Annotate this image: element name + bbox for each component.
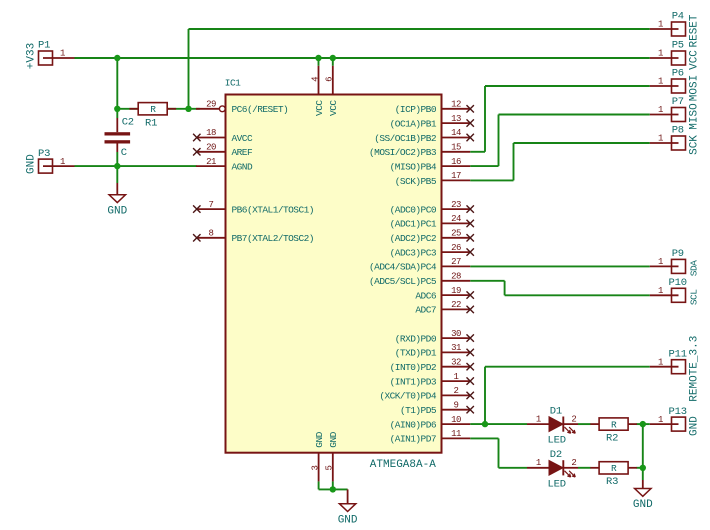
svg-text:18: 18 xyxy=(206,128,216,138)
svg-text:(ADC0)PC0: (ADC0)PC0 xyxy=(390,204,437,215)
svg-text:GND: GND xyxy=(328,431,339,447)
svg-text:R1: R1 xyxy=(145,118,157,130)
svg-text:(SS/OC1B)PB2: (SS/OC1B)PB2 xyxy=(374,133,437,144)
svg-text:12: 12 xyxy=(451,100,461,110)
svg-text:4: 4 xyxy=(310,77,320,82)
svg-text:16: 16 xyxy=(451,157,461,167)
svg-text:14: 14 xyxy=(451,128,461,138)
svg-text:GND: GND xyxy=(338,514,358,526)
svg-text:MOSI: MOSI xyxy=(688,75,700,101)
svg-text:22: 22 xyxy=(451,300,461,310)
svg-text:D1: D1 xyxy=(550,405,562,417)
svg-text:(SCK)PB5: (SCK)PB5 xyxy=(395,176,437,187)
svg-text:1: 1 xyxy=(658,257,663,267)
svg-text:ADC6: ADC6 xyxy=(415,290,436,301)
svg-text:R2: R2 xyxy=(606,433,618,445)
svg-text:SCK: SCK xyxy=(688,135,700,155)
svg-text:1: 1 xyxy=(658,134,663,144)
svg-text:P5: P5 xyxy=(672,40,684,52)
svg-text:C: C xyxy=(121,147,127,159)
svg-text:(MOSI/OC2)PB3: (MOSI/OC2)PB3 xyxy=(369,147,437,158)
svg-text:1: 1 xyxy=(658,77,663,87)
svg-text:(ADC5/SCL)PC5: (ADC5/SCL)PC5 xyxy=(369,276,437,287)
svg-text:D2: D2 xyxy=(550,449,562,461)
svg-text:11: 11 xyxy=(451,429,461,439)
svg-text:P3: P3 xyxy=(38,148,50,160)
svg-text:VCC: VCC xyxy=(688,50,700,70)
svg-text:R: R xyxy=(611,463,617,474)
svg-text:24: 24 xyxy=(451,214,461,224)
svg-text:21: 21 xyxy=(206,157,216,167)
svg-text:(ADC3)PC3: (ADC3)PC3 xyxy=(390,247,437,258)
svg-text:2: 2 xyxy=(571,415,576,425)
svg-text:REMOTE_3.3: REMOTE_3.3 xyxy=(688,336,700,402)
svg-text:2: 2 xyxy=(571,458,576,468)
svg-text:IC1: IC1 xyxy=(225,78,241,89)
svg-text:8: 8 xyxy=(209,229,214,239)
svg-text:19: 19 xyxy=(451,286,461,296)
svg-text:(ADC4/SDA)PC4: (ADC4/SDA)PC4 xyxy=(369,262,437,273)
svg-text:1: 1 xyxy=(658,49,663,59)
svg-text:1: 1 xyxy=(536,415,541,425)
svg-text:1: 1 xyxy=(658,105,663,115)
svg-text:31: 31 xyxy=(451,343,461,353)
svg-text:1: 1 xyxy=(536,458,541,468)
svg-text:GND: GND xyxy=(688,416,700,436)
svg-text:LED: LED xyxy=(548,435,566,447)
svg-text:(ICP)PB0: (ICP)PB0 xyxy=(395,104,437,115)
svg-text:ATMEGA8A-A: ATMEGA8A-A xyxy=(370,459,436,471)
svg-text:(INT0)PD2: (INT0)PD2 xyxy=(390,362,437,373)
svg-text:1: 1 xyxy=(60,49,65,59)
svg-text:PB7(XTAL2/TOSC2): PB7(XTAL2/TOSC2) xyxy=(232,233,314,244)
svg-text:P13: P13 xyxy=(669,406,687,418)
svg-text:P4: P4 xyxy=(672,11,684,23)
svg-text:AREF: AREF xyxy=(232,147,253,158)
svg-text:SDA: SDA xyxy=(688,260,699,276)
svg-text:28: 28 xyxy=(451,272,461,282)
svg-text:20: 20 xyxy=(206,143,216,153)
svg-text:SCL: SCL xyxy=(688,289,699,305)
svg-text:R: R xyxy=(150,104,156,115)
svg-text:17: 17 xyxy=(451,171,461,181)
svg-text:(XCK/T0)PD4: (XCK/T0)PD4 xyxy=(379,391,437,402)
svg-text:PB6(XTAL1/TOSC1): PB6(XTAL1/TOSC1) xyxy=(232,204,314,215)
svg-text:2: 2 xyxy=(454,386,459,396)
svg-text:GND: GND xyxy=(107,205,127,217)
svg-text:(INT1)PD3: (INT1)PD3 xyxy=(390,376,437,387)
svg-text:5: 5 xyxy=(325,465,335,470)
svg-text:(OC1A)PB1: (OC1A)PB1 xyxy=(390,118,437,129)
svg-text:1: 1 xyxy=(658,415,663,425)
svg-text:1: 1 xyxy=(658,286,663,296)
svg-text:P6: P6 xyxy=(672,68,684,80)
svg-text:VCC: VCC xyxy=(314,100,325,116)
svg-text:C2: C2 xyxy=(122,117,134,129)
svg-text:26: 26 xyxy=(451,243,461,253)
svg-text:MISO: MISO xyxy=(688,103,700,130)
svg-text:R: R xyxy=(611,420,617,431)
svg-text:(T1)PD5: (T1)PD5 xyxy=(400,405,437,416)
svg-text:+V33: +V33 xyxy=(26,43,38,69)
svg-text:1: 1 xyxy=(60,157,65,167)
svg-text:(MISO)PB4: (MISO)PB4 xyxy=(390,161,437,172)
svg-text:13: 13 xyxy=(451,114,461,124)
svg-text:6: 6 xyxy=(325,77,335,82)
svg-text:PC6(/RESET): PC6(/RESET) xyxy=(232,104,289,115)
svg-text:R3: R3 xyxy=(606,476,618,488)
svg-text:(AIN1)PD7: (AIN1)PD7 xyxy=(390,434,436,445)
svg-text:(AIN0)PD6: (AIN0)PD6 xyxy=(390,419,437,430)
svg-text:VCC: VCC xyxy=(328,100,339,116)
svg-text:27: 27 xyxy=(451,257,461,267)
svg-text:P8: P8 xyxy=(672,125,684,137)
svg-text:23: 23 xyxy=(451,200,461,210)
svg-text:RESET: RESET xyxy=(688,14,700,47)
svg-text:3: 3 xyxy=(310,465,320,470)
svg-text:LED: LED xyxy=(548,478,566,490)
svg-text:(ADC2)PC2: (ADC2)PC2 xyxy=(390,233,437,244)
svg-text:(ADC1)PC1: (ADC1)PC1 xyxy=(390,219,437,230)
svg-text:GND: GND xyxy=(314,431,325,447)
svg-text:9: 9 xyxy=(454,400,459,410)
svg-text:1: 1 xyxy=(658,20,663,30)
svg-text:1: 1 xyxy=(658,357,663,367)
svg-text:32: 32 xyxy=(451,357,461,367)
svg-text:29: 29 xyxy=(206,100,216,110)
svg-text:10: 10 xyxy=(451,415,461,425)
svg-text:(RXD)PD0: (RXD)PD0 xyxy=(395,333,437,344)
svg-text:AVCC: AVCC xyxy=(232,133,253,144)
svg-text:ADC7: ADC7 xyxy=(415,305,436,316)
svg-text:GND: GND xyxy=(26,154,38,174)
svg-text:GND: GND xyxy=(633,499,653,511)
svg-text:P1: P1 xyxy=(38,40,50,52)
svg-text:30: 30 xyxy=(451,329,461,339)
svg-text:25: 25 xyxy=(451,229,461,239)
svg-text:P9: P9 xyxy=(672,248,684,260)
svg-text:P7: P7 xyxy=(672,96,684,108)
svg-text:1: 1 xyxy=(454,372,459,382)
svg-text:15: 15 xyxy=(451,143,461,153)
svg-text:7: 7 xyxy=(209,200,214,210)
svg-text:P11: P11 xyxy=(669,348,687,360)
svg-text:P10: P10 xyxy=(669,277,687,289)
svg-text:AGND: AGND xyxy=(232,161,253,172)
svg-text:(TXD)PD1: (TXD)PD1 xyxy=(395,348,437,359)
